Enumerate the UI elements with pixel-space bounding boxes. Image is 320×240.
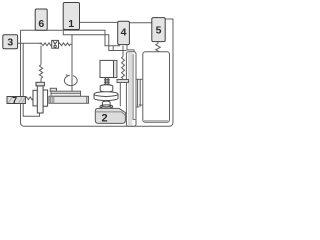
svg-text:3: 3: [7, 36, 13, 48]
svg-text:7: 7: [12, 95, 17, 105]
svg-text:4: 4: [121, 27, 127, 39]
svg-text:2: 2: [102, 113, 108, 125]
svg-text:5: 5: [156, 25, 162, 37]
svg-text:1: 1: [68, 18, 74, 30]
svg-text:6: 6: [38, 18, 44, 30]
